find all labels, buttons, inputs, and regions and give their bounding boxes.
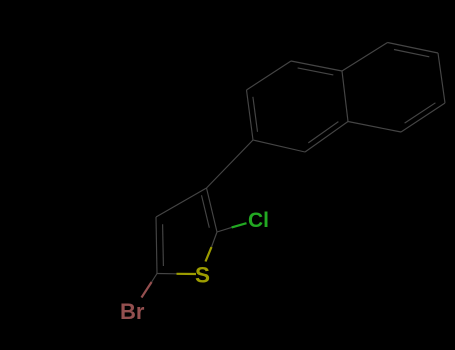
- svg-text:S: S: [195, 262, 210, 287]
- svg-text:Cl: Cl: [248, 209, 269, 232]
- svg-text:Br: Br: [120, 299, 145, 324]
